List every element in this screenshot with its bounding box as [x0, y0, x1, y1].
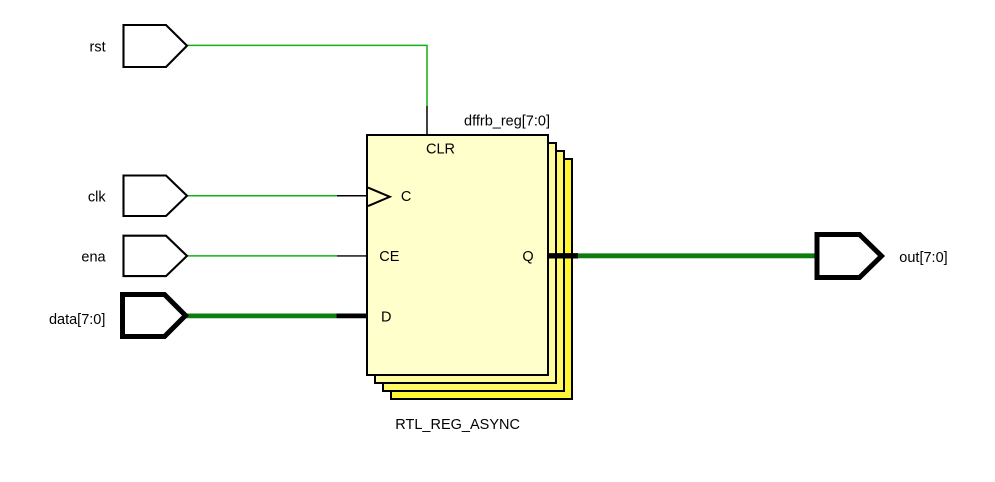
- wire C pin stub (black): [337, 195, 367, 197]
- wire clk net (green): [187, 195, 337, 197]
- wire D pin stub (thick black): [337, 313, 368, 318]
- port clk (input pentagon): [124, 176, 188, 217]
- clock input triangle on C pin: [368, 188, 390, 207]
- register stack layer 3: [383, 151, 564, 391]
- wire out bus (thick green): [578, 253, 817, 258]
- wire Q pin stub (thick black): [548, 253, 578, 258]
- port ena (input pentagon): [124, 236, 188, 276]
- svg-text:out[7:0]: out[7:0]: [899, 250, 947, 266]
- svg-text:data[7:0]: data[7:0]: [49, 312, 105, 328]
- svg-text:Q: Q: [522, 249, 533, 265]
- wire data bus (thick green): [186, 313, 337, 318]
- wire ena net (green): [187, 255, 337, 257]
- wire CE pin stub (black): [337, 255, 367, 257]
- port data[7:0] (input bus pentagon, bold): [123, 295, 186, 337]
- wire rst net (green): [187, 45, 427, 106]
- register stack layer 2: [375, 143, 556, 383]
- wire CLR pin stub (black): [426, 106, 428, 135]
- register stack layer 4 (back): [391, 159, 572, 399]
- svg-text:rst: rst: [89, 40, 105, 56]
- register U1 dffrb_reg main body: [367, 135, 548, 375]
- svg-text:CLR: CLR: [426, 142, 455, 158]
- svg-text:C: C: [401, 189, 411, 205]
- svg-text:CE: CE: [379, 249, 399, 265]
- svg-text:ena: ena: [81, 250, 106, 266]
- svg-text:dffrb_reg[7:0]: dffrb_reg[7:0]: [464, 113, 550, 129]
- port out[7:0] (output bus pentagon, bold): [817, 235, 882, 278]
- svg-text:D: D: [381, 309, 391, 325]
- port rst (input pentagon): [124, 25, 188, 67]
- svg-text:RTL_REG_ASYNC: RTL_REG_ASYNC: [395, 417, 520, 433]
- svg-text:clk: clk: [88, 190, 106, 206]
